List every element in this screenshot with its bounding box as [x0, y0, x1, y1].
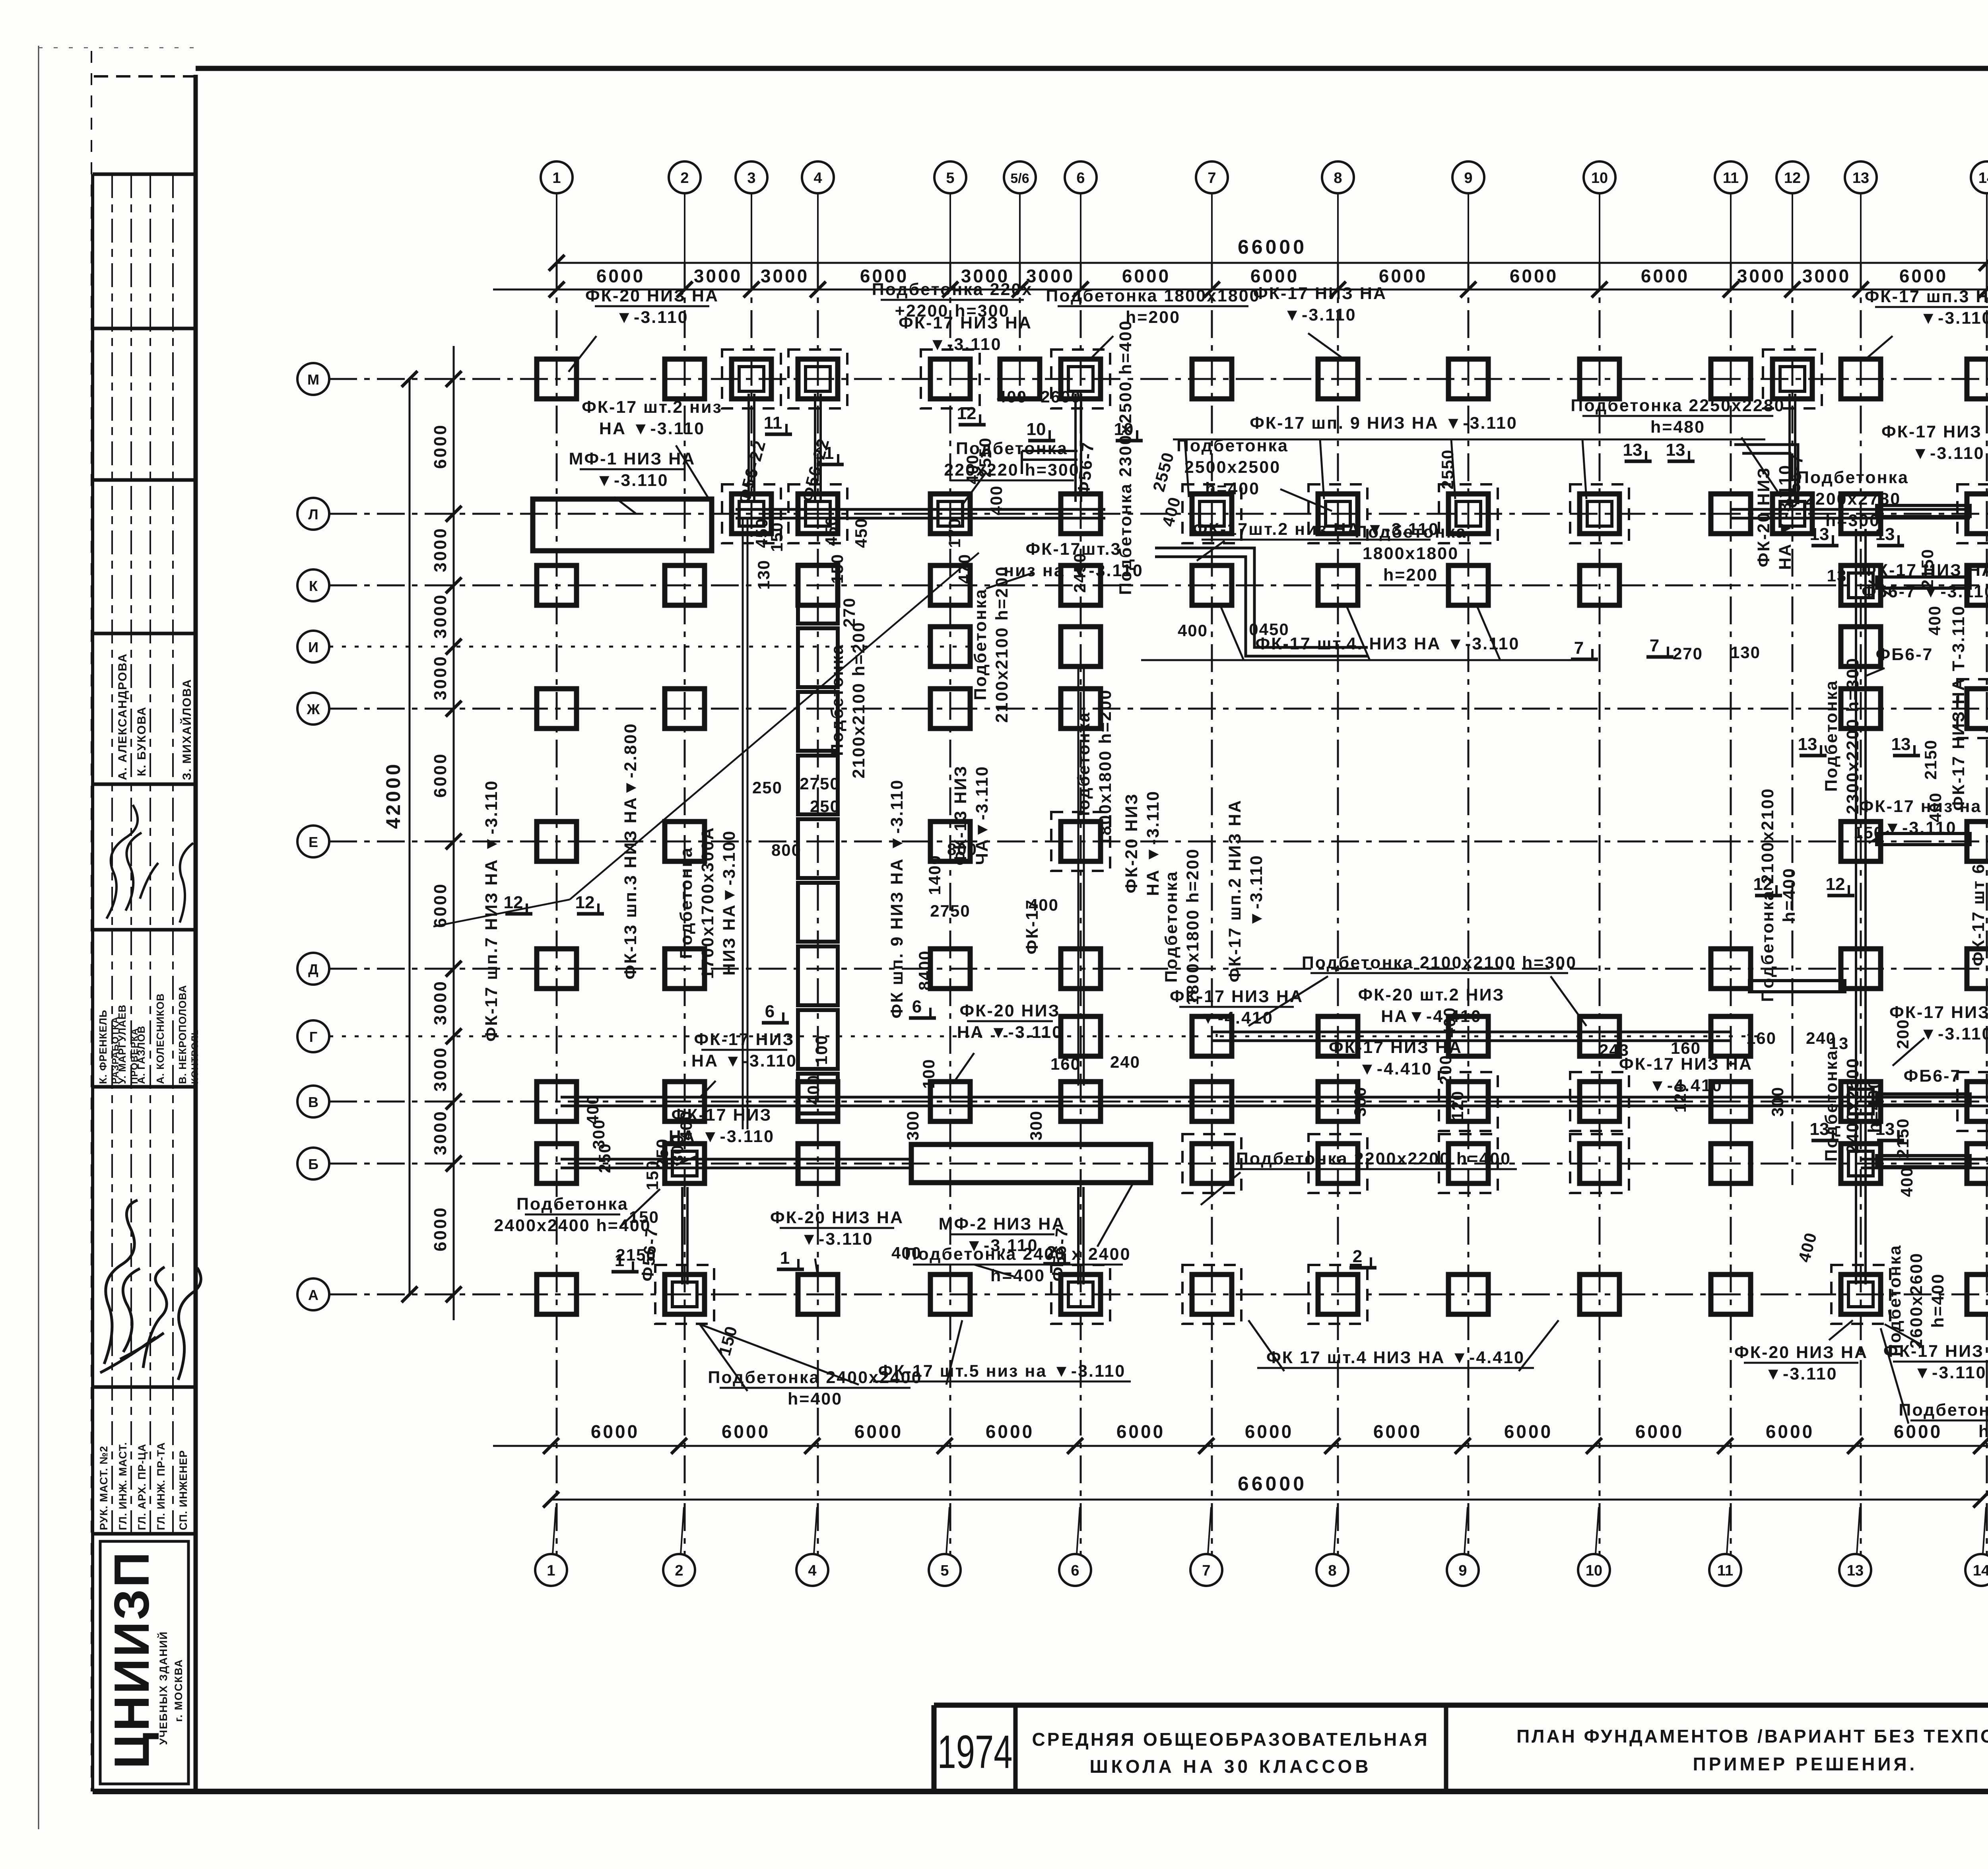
svg-text:ФК-20 НИЗ: ФК-20 НИЗ	[1122, 793, 1141, 894]
svg-text:66000: 66000	[1238, 236, 1307, 258]
svg-text:h=400: h=400	[990, 1266, 1045, 1285]
svg-text:1: 1	[780, 1248, 790, 1268]
svg-text:450: 450	[852, 518, 870, 548]
svg-text:2: 2	[1353, 1247, 1362, 1266]
svg-text:В. НЕКРОПОЛОВА: В. НЕКРОПОЛОВА	[177, 985, 188, 1084]
svg-text:▼-3.110: ▼-3.110	[800, 1230, 873, 1249]
svg-text:3000: 3000	[694, 266, 742, 286]
svg-text:И: И	[308, 639, 318, 655]
svg-text:В: В	[308, 1094, 318, 1110]
svg-text:13: 13	[1623, 440, 1642, 460]
svg-text:2400х2500: 2400х2500	[1843, 1057, 1862, 1154]
svg-text:г. МОСКВА: г. МОСКВА	[173, 1659, 184, 1722]
svg-text:13: 13	[1666, 440, 1685, 460]
svg-text:h=200: h=200	[1383, 565, 1438, 585]
svg-text:7: 7	[1208, 170, 1216, 187]
svg-text:12: 12	[1826, 874, 1845, 894]
svg-text:6000: 6000	[1510, 266, 1558, 286]
svg-text:3: 3	[747, 170, 755, 187]
svg-text:3000: 3000	[431, 593, 450, 639]
svg-text:400: 400	[1029, 896, 1059, 914]
svg-text:11: 11	[1717, 1562, 1733, 1579]
svg-text:А. ГАЗЛОВ: А. ГАЗЛОВ	[135, 1026, 147, 1084]
svg-text:Подбетонка: Подбетонка	[1162, 870, 1181, 983]
svg-text:СРЕДНЯЯ ОБЩЕОБРАЗОВАТЕЛЬНАЯ: СРЕДНЯЯ ОБЩЕОБРАЗОВАТЕЛЬНАЯ	[1032, 1729, 1429, 1750]
svg-text:Ж: Ж	[307, 701, 320, 717]
svg-text:42000: 42000	[382, 762, 404, 829]
svg-text:К. ФРЕНКЕЛЬ: К. ФРЕНКЕЛЬ	[97, 1010, 109, 1084]
svg-text:2500х2500: 2500х2500	[1184, 458, 1281, 477]
svg-text:ФК-17 НИЗ НА: ФК-17 НИЗ НА	[1329, 1038, 1462, 1057]
svg-text:Подбетонка 2400х2400: Подбетонка 2400х2400	[708, 1368, 922, 1387]
svg-text:270: 270	[1673, 644, 1703, 663]
svg-text:6: 6	[765, 1002, 775, 1021]
svg-text:К: К	[309, 578, 318, 594]
svg-text:150: 150	[767, 522, 786, 552]
svg-text:6: 6	[912, 997, 922, 1016]
svg-text:14: 14	[1978, 170, 1988, 187]
svg-text:З. МИХАЙЛОВА: З. МИХАЙЛОВА	[180, 679, 194, 780]
svg-text:▼-3.110: ▼-3.110	[1920, 309, 1988, 328]
svg-text:0450: 0450	[1249, 620, 1289, 639]
svg-text:▼-3.110: ▼-3.110	[1765, 1364, 1837, 1383]
svg-text:1: 1	[552, 170, 561, 187]
svg-text:УЧЕБНЫХ ЗДАНИЙ: УЧЕБНЫХ ЗДАНИЙ	[157, 1631, 169, 1745]
svg-text:▼-3.110: ▼-3.110	[1912, 444, 1984, 463]
svg-text:1974: 1974	[938, 1725, 1013, 1778]
svg-text:НА ▼-3.110: НА ▼-3.110	[957, 1023, 1063, 1042]
svg-text:2300х2200 h=300: 2300х2200 h=300	[1843, 657, 1862, 814]
svg-text:800: 800	[771, 841, 802, 859]
svg-text:ПРИМЕР РЕШЕНИЯ.: ПРИМЕР РЕШЕНИЯ.	[1693, 1754, 1918, 1774]
svg-text:▼-3.110: ▼-3.110	[1283, 305, 1356, 324]
svg-text:6000: 6000	[1635, 1421, 1684, 1442]
svg-text:▼-3.110: ▼-3.110	[1914, 1363, 1986, 1382]
svg-text:6000: 6000	[1373, 1421, 1422, 1442]
svg-text:8: 8	[1334, 170, 1342, 187]
svg-text:400: 400	[1178, 621, 1208, 640]
svg-text:400: 400	[963, 454, 982, 484]
svg-text:ФК-17 НИЗ НА: ФК-17 НИЗ НА	[1881, 422, 1988, 441]
svg-text:Подбетонка 1800х1800: Подбетонка 1800х1800	[1046, 286, 1260, 305]
svg-text:Подбетонка: Подбетонка	[1797, 468, 1909, 487]
svg-text:Б: Б	[308, 1156, 318, 1172]
svg-text:ФК-17 шп.2 НИЗ НА: ФК-17 шп.2 НИЗ НА	[1225, 799, 1244, 983]
svg-text:РУК. МАСТ. №2: РУК. МАСТ. №2	[98, 1445, 110, 1530]
svg-text:4: 4	[813, 170, 822, 187]
svg-text:400: 400	[1897, 1167, 1916, 1197]
svg-text:Подбетонка 2100х2100 h=300: Подбетонка 2100х2100 h=300	[1302, 953, 1577, 972]
svg-text:h=400: h=400	[1978, 1422, 1988, 1441]
svg-text:ФБ6-7: ФБ6-7	[1876, 645, 1934, 664]
svg-text:6000: 6000	[596, 266, 645, 286]
svg-text:А. АЛЕКСАНДРОВА: А. АЛЕКСАНДРОВА	[116, 653, 129, 780]
svg-text:150: 150	[828, 554, 846, 584]
svg-text:Подбетонка: Подбетонка	[1074, 711, 1093, 824]
svg-text:10: 10	[1027, 420, 1046, 439]
svg-text:h=480: h=480	[1650, 418, 1705, 437]
svg-text:6000: 6000	[1899, 266, 1948, 286]
svg-text:7: 7	[1202, 1562, 1210, 1579]
svg-text:12: 12	[1784, 170, 1801, 187]
svg-text:Подбетонка: Подбетонка	[677, 847, 696, 959]
svg-text:А: А	[308, 1287, 318, 1303]
svg-text:Е: Е	[309, 834, 318, 850]
svg-text:120: 120	[1671, 1082, 1689, 1113]
svg-text:6000: 6000	[1379, 266, 1427, 286]
svg-text:10: 10	[1591, 170, 1608, 187]
svg-text:НА ▼-3.110: НА ▼-3.110	[691, 1051, 797, 1070]
svg-text:3000: 3000	[431, 655, 450, 700]
svg-text:ФК-13 шп.3 НИЗ НА▼-2.800: ФК-13 шп.3 НИЗ НА▼-2.800	[621, 723, 640, 979]
svg-text:250: 250	[752, 778, 782, 797]
svg-text:160: 160	[1746, 1029, 1776, 1047]
svg-text:ФК-20 НИЗ: ФК-20 НИЗ	[1754, 467, 1773, 567]
svg-text:1800х1800 h=200: 1800х1800 h=200	[1183, 848, 1202, 1005]
svg-text:3000: 3000	[1026, 266, 1075, 286]
svg-text:300: 300	[903, 1110, 922, 1140]
svg-text:2100х2100 h=200: 2100х2100 h=200	[992, 565, 1011, 723]
svg-text:130: 130	[1730, 643, 1761, 662]
svg-text:Подбетонка 2250х2280: Подбетонка 2250х2280	[1571, 396, 1785, 415]
svg-text:3000: 3000	[1802, 266, 1851, 286]
svg-text:ФК-20 НИЗ НА: ФК-20 НИЗ НА	[770, 1208, 904, 1227]
svg-text:9: 9	[1464, 170, 1472, 187]
svg-text:h=400: h=400	[1928, 1273, 1947, 1328]
svg-text:300: 300	[1768, 1086, 1787, 1117]
svg-text:НА▼-4.410: НА▼-4.410	[1381, 1007, 1482, 1026]
svg-text:НА ▼-3.110: НА ▼-3.110	[1776, 464, 1795, 570]
svg-text:ФБ6-7: ФБ6-7	[1904, 1067, 1961, 1086]
svg-text:Подбетонка: Подбетонка	[1822, 1049, 1841, 1162]
svg-text:130: 130	[754, 560, 773, 590]
svg-text:ФК-17 шт.2 низ: ФК-17 шт.2 низ	[582, 398, 722, 417]
svg-text:h=400: h=400	[1865, 1078, 1884, 1133]
svg-text:Подбетонка: Подбетонка	[971, 588, 990, 700]
svg-text:243: 243	[1599, 1041, 1629, 1059]
svg-text:Л: Л	[308, 506, 318, 523]
svg-text:▼-3.110: ▼-3.110	[1920, 1024, 1988, 1043]
svg-text:12: 12	[957, 404, 977, 423]
svg-text:СП. ИНЖЕНЕР: СП. ИНЖЕНЕР	[177, 1450, 189, 1530]
svg-text:6: 6	[1071, 1562, 1079, 1579]
svg-text:6000: 6000	[431, 1206, 450, 1251]
svg-text:6000: 6000	[1116, 1421, 1165, 1442]
svg-text:300: 300	[1027, 1110, 1045, 1140]
svg-text:3000: 3000	[761, 266, 809, 286]
svg-text:270: 270	[840, 597, 858, 628]
svg-text:▼-3.110: ▼-3.110	[596, 471, 668, 490]
svg-text:Подбетонка 220х: Подбетонка 220х	[872, 280, 1033, 299]
svg-text:6000: 6000	[854, 1421, 903, 1442]
svg-text:А. КОЛЕСНИКОВ: А. КОЛЕСНИКОВ	[154, 993, 166, 1084]
svg-text:10: 10	[1586, 1562, 1602, 1579]
svg-text:ФК-17шт.2 низ НА ▼-3.110: ФК-17шт.2 низ НА ▼-3.110	[1193, 520, 1439, 539]
svg-text:170: 170	[945, 518, 964, 548]
svg-text:6: 6	[1076, 170, 1085, 187]
svg-text:Подбетонка: Подбетонка	[1822, 680, 1841, 792]
svg-text:▼-4.410: ▼-4.410	[1200, 1008, 1273, 1028]
svg-text:6000: 6000	[1641, 266, 1689, 286]
svg-text:400: 400	[997, 387, 1027, 406]
svg-text:МФ-2 НИЗ НА: МФ-2 НИЗ НА	[939, 1214, 1066, 1234]
svg-text:ГЛ. ИНЖ. МАСТ.: ГЛ. ИНЖ. МАСТ.	[117, 1442, 129, 1530]
svg-text:13: 13	[1798, 734, 1817, 754]
svg-text:ГЛ. АРХ. ПР-ЦА: ГЛ. АРХ. ПР-ЦА	[136, 1444, 148, 1530]
svg-text:Подбетонка 2400х2400: Подбетонка 2400х2400	[1899, 1401, 1988, 1420]
svg-text:2: 2	[680, 170, 689, 187]
svg-text:Г: Г	[309, 1029, 317, 1045]
svg-text:12: 12	[575, 893, 595, 912]
svg-text:2750: 2750	[930, 901, 970, 920]
svg-text:3000: 3000	[431, 1046, 450, 1092]
svg-text:h=400: h=400	[1205, 479, 1260, 498]
svg-text:66000: 66000	[1238, 1473, 1307, 1495]
svg-text:Подбетонка: Подбетонка	[516, 1195, 629, 1214]
svg-text:1800х1800 h=200: 1800х1800 h=200	[1096, 689, 1115, 846]
svg-text:4: 4	[808, 1562, 816, 1579]
svg-text:200: 200	[1436, 1055, 1455, 1085]
svg-text:6000: 6000	[431, 424, 450, 469]
svg-text:2750: 2750	[800, 774, 840, 793]
svg-text:6000: 6000	[431, 752, 450, 798]
svg-text:2600х2600: 2600х2600	[1907, 1252, 1926, 1348]
svg-text:НА ▼-3.110: НА ▼-3.110	[1143, 790, 1163, 896]
svg-text:9: 9	[1458, 1562, 1467, 1579]
svg-text:11: 11	[1723, 170, 1739, 187]
svg-text:ФК-17 НИЗ НА: ФК-17 НИЗ НА	[1253, 284, 1387, 303]
svg-text:5: 5	[940, 1562, 949, 1579]
svg-text:h=400: h=400	[788, 1389, 843, 1409]
svg-text:ФК 17 шт.4 НИЗ НА ▼-4.410: ФК 17 шт.4 НИЗ НА ▼-4.410	[1266, 1348, 1525, 1367]
svg-text:120: 120	[1448, 1090, 1467, 1121]
svg-text:250: 250	[595, 1143, 614, 1173]
svg-text:КОНТРОЛЬ: КОНТРОЛЬ	[190, 1028, 200, 1084]
svg-text:Подбетонка 2400 х 2400: Подбетонка 2400 х 2400	[905, 1245, 1131, 1264]
svg-text:400: 400	[1440, 1007, 1459, 1037]
svg-text:13: 13	[1827, 566, 1847, 585]
svg-text:НА ▼-3.110: НА ▼-3.110	[599, 419, 705, 438]
svg-text:6000: 6000	[1122, 266, 1171, 286]
svg-text:М: М	[307, 371, 319, 388]
svg-text:У. МАРГУЛАЕВ: У. МАРГУЛАЕВ	[116, 1004, 128, 1084]
svg-text:3000: 3000	[431, 527, 450, 572]
svg-text:ФК-20 НИЗ НА: ФК-20 НИЗ НА	[1734, 1343, 1868, 1362]
svg-text:6000: 6000	[591, 1421, 639, 1442]
svg-text:13: 13	[1829, 1034, 1849, 1053]
svg-text:1400: 1400	[925, 855, 944, 895]
svg-text:ЦНИИЗП: ЦНИИЗП	[105, 1550, 159, 1769]
svg-text:160: 160	[1671, 1039, 1701, 1057]
svg-text:6000: 6000	[1504, 1421, 1553, 1442]
svg-text:ФК-20 шт.2 НИЗ: ФК-20 шт.2 НИЗ	[1358, 985, 1505, 1004]
svg-text:Подбетонка 2200х2200 h=400: Подбетонка 2200х2200 h=400	[1236, 1149, 1511, 1168]
svg-text:7: 7	[1650, 636, 1659, 655]
svg-text:3000: 3000	[431, 1110, 450, 1155]
svg-text:100: 100	[812, 1035, 831, 1065]
svg-text:13: 13	[1852, 170, 1869, 187]
svg-text:2100х2100 h=200: 2100х2100 h=200	[849, 621, 868, 778]
svg-text:100: 100	[919, 1059, 938, 1089]
svg-text:450: 450	[822, 516, 841, 546]
svg-text:h=400: h=400	[1780, 867, 1799, 922]
svg-text:3000: 3000	[1737, 266, 1786, 286]
svg-text:13: 13	[1891, 734, 1911, 754]
svg-text:5/6: 5/6	[1010, 171, 1029, 186]
svg-text:1700х1700х300А: 1700х1700х300А	[698, 826, 717, 979]
svg-text:400: 400	[1926, 792, 1945, 822]
svg-text:2150: 2150	[616, 1245, 656, 1264]
svg-text:160: 160	[1050, 1055, 1081, 1073]
svg-text:300: 300	[1351, 1086, 1369, 1117]
svg-text:ФК-17 НИЗ НА: ФК-17 НИЗ НА	[1619, 1055, 1753, 1074]
svg-text:▼-3.110: ▼-3.110	[1884, 818, 1957, 837]
svg-text:2600: 2600	[1041, 387, 1081, 406]
svg-text:7: 7	[1574, 638, 1584, 658]
svg-text:13: 13	[1847, 1562, 1864, 1579]
svg-text:Подбетонка: Подбетонка	[828, 644, 847, 756]
svg-text:ФК-17 НИЗ: ФК-17 НИЗ	[694, 1030, 795, 1049]
svg-text:6000: 6000	[431, 882, 450, 928]
svg-text:8: 8	[1328, 1562, 1336, 1579]
svg-text:800: 800	[947, 840, 977, 859]
svg-text:6000: 6000	[1894, 1421, 1942, 1442]
svg-text:400: 400	[987, 485, 1006, 515]
svg-text:ШКОЛА НА 30 КЛАССОВ: ШКОЛА НА 30 КЛАССОВ	[1089, 1756, 1371, 1777]
svg-text:2450: 2450	[1070, 552, 1089, 593]
svg-text:▼-3.110: ▼-3.110	[1247, 854, 1266, 927]
svg-text:8400: 8400	[915, 950, 934, 990]
svg-text:ФК-17 НИЗ НА Т-3.110: ФК-17 НИЗ НА Т-3.110	[1949, 605, 1968, 811]
svg-text:400: 400	[677, 1110, 695, 1140]
svg-text:2: 2	[675, 1562, 683, 1579]
svg-text:ФК-20 НИЗ НА: ФК-20 НИЗ НА	[585, 286, 719, 305]
svg-text:МФ-1 НИЗ НА: МФ-1 НИЗ НА	[569, 449, 696, 468]
svg-text:2150: 2150	[1918, 548, 1937, 589]
svg-text:ФК-17 шт.4. НИЗ НА ▼-3.110: ФК-17 шт.4. НИЗ НА ▼-3.110	[1256, 634, 1520, 653]
svg-text:ФК-17 шт 6: ФК-17 шт 6	[1969, 863, 1988, 966]
svg-text:ФК-17 НИЗ НА: ФК-17 НИЗ НА	[899, 313, 1032, 332]
svg-text:470: 470	[955, 554, 974, 584]
svg-text:Подбетонка: Подбетонка	[1885, 1244, 1905, 1356]
svg-text:▼-4.410: ▼-4.410	[1359, 1059, 1432, 1078]
svg-text:150: 150	[643, 1160, 662, 1190]
svg-text:3000: 3000	[431, 980, 450, 1025]
svg-text:6000: 6000	[722, 1421, 770, 1442]
svg-text:400: 400	[1925, 605, 1944, 635]
svg-text:Подбетонка 2100х2100: Подбетонка 2100х2100	[1758, 787, 1777, 1002]
svg-text:250: 250	[810, 797, 840, 816]
svg-text:h=300: h=300	[1825, 511, 1880, 530]
svg-text:▼-3.110: ▼-3.110	[929, 335, 1002, 354]
svg-text:2150: 2150	[1893, 1118, 1912, 1158]
svg-text:ФК-17 шп. 9 НИЗ НА ▼-3.110: ФК-17 шп. 9 НИЗ НА ▼-3.110	[1250, 414, 1518, 433]
svg-text:ФК-20 НИЗ: ФК-20 НИЗ	[960, 1001, 1060, 1020]
svg-text:400: 400	[891, 1243, 922, 1262]
svg-text:11: 11	[764, 413, 782, 433]
svg-text:▼-3.110: ▼-3.110	[615, 308, 688, 327]
svg-text:240: 240	[1110, 1053, 1140, 1071]
svg-text:14: 14	[1973, 1562, 1988, 1579]
svg-text:ФК-17 шп.3 НИЗ НА: ФК-17 шп.3 НИЗ НА	[1865, 287, 1988, 306]
svg-text:400: 400	[804, 1074, 823, 1105]
svg-text:ГЛ. ИНЖ. ПР-ТА: ГЛ. ИНЖ. ПР-ТА	[155, 1442, 167, 1530]
svg-text:150: 150	[1854, 823, 1884, 842]
svg-text:6000: 6000	[986, 1421, 1034, 1442]
svg-text:Д: Д	[308, 961, 318, 977]
svg-text:1: 1	[547, 1562, 555, 1579]
svg-text:6000: 6000	[1766, 1421, 1814, 1442]
svg-text:6000: 6000	[1250, 266, 1299, 286]
svg-text:2150: 2150	[1921, 739, 1940, 779]
svg-text:К. БУКОВА: К. БУКОВА	[135, 706, 148, 776]
svg-text:150: 150	[629, 1208, 659, 1226]
svg-text:5: 5	[946, 170, 954, 187]
svg-text:ФК шп. 9 НИЗ НА ▼-3.110: ФК шп. 9 НИЗ НА ▼-3.110	[887, 779, 907, 1018]
svg-text:2200х2780: 2200х2780	[1805, 490, 1901, 509]
svg-text:Подбетонка 2300х2500 h=400: Подбетонка 2300х2500 h=400	[1116, 320, 1135, 595]
svg-text:НИЗ НА▼-3.100: НИЗ НА▼-3.100	[720, 830, 739, 975]
svg-text:1800х1800: 1800х1800	[1363, 544, 1459, 563]
svg-text:ПЛАН ФУНДАМЕНТОВ /ВАРИАНТ БЕЗ: ПЛАН ФУНДАМЕНТОВ /ВАРИАНТ БЕЗ ТЕХПОДПОЛЬ…	[1516, 1726, 1988, 1747]
svg-text:6000: 6000	[1245, 1421, 1293, 1442]
svg-text:ФК-17 шп.7 НИЗ НА ▼-3.110: ФК-17 шп.7 НИЗ НА ▼-3.110	[482, 780, 501, 1042]
svg-text:200: 200	[1893, 1019, 1912, 1049]
